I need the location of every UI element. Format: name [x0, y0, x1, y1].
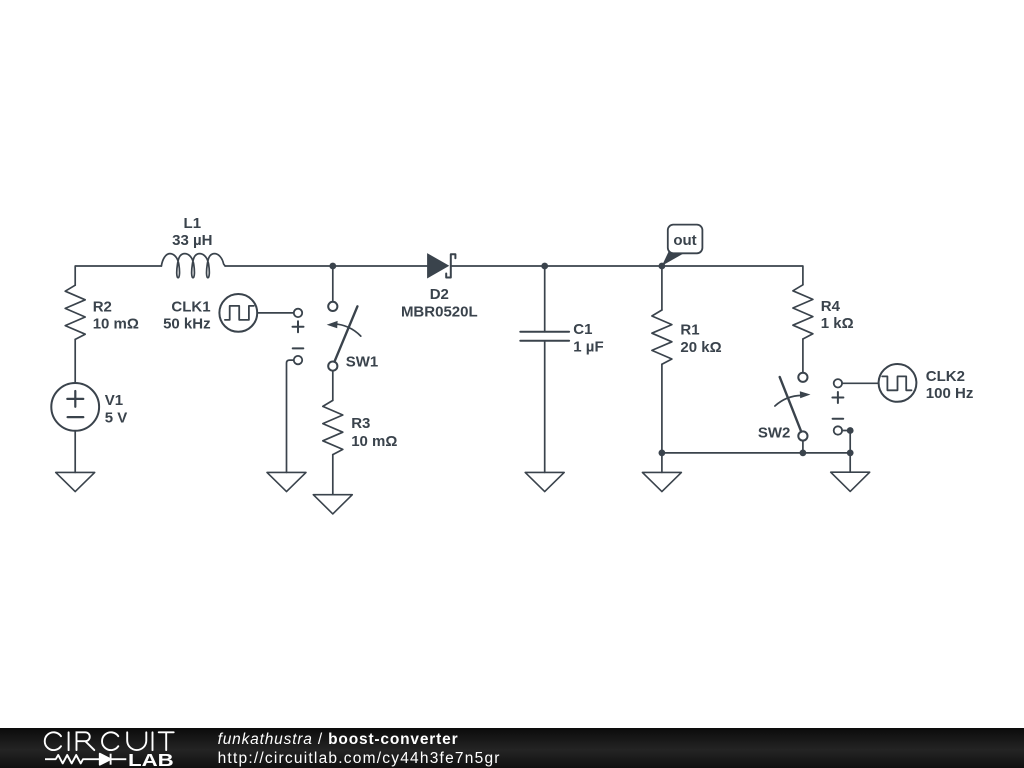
logo CIRCUIT wordmark	[45, 732, 174, 750]
node junction at out	[659, 263, 666, 270]
wire: CLK1 - terminal to ground	[287, 360, 294, 472]
footer bar	[0, 728, 1024, 768]
wire: SW2 to bottom node	[802, 441, 804, 453]
wire: diode cathode to right corner, down to R4	[452, 266, 803, 285]
capacitor C1	[520, 332, 569, 341]
svg-text:D2: D2	[430, 286, 449, 303]
inductor L1	[161, 254, 225, 278]
wire: left corner, top rail to inductor	[75, 266, 161, 285]
svg-text:10 mΩ: 10 mΩ	[93, 316, 139, 333]
svg-text:MBR0520L: MBR0520L	[401, 304, 478, 321]
clock source CLK1	[219, 294, 257, 332]
svg-text:20 kΩ: 20 kΩ	[680, 339, 721, 356]
svg-text:SW2: SW2	[758, 425, 791, 442]
svg-text:out: out	[673, 232, 696, 249]
ground (V1)	[56, 472, 95, 491]
svg-text:R2: R2	[93, 298, 112, 315]
ground (R3)	[313, 495, 352, 514]
node junction at SW2 bottom	[800, 450, 807, 457]
voltage source V1	[51, 383, 99, 431]
svg-text:1 kΩ: 1 kΩ	[821, 315, 854, 332]
wire: R1 bottom to ground	[661, 453, 663, 473]
node label out	[662, 225, 702, 266]
svg-text:5 V: 5 V	[105, 409, 128, 426]
resistor R3	[323, 400, 343, 454]
switch SW2	[775, 373, 811, 441]
wire: V1 to ground	[74, 431, 76, 473]
clock source CLK2	[879, 364, 917, 402]
svg-text:50 kHz: 50 kHz	[163, 316, 211, 333]
svg-text:SW1: SW1	[346, 354, 379, 371]
plus sign CLK1	[293, 321, 304, 332]
ground (C1)	[525, 472, 564, 491]
wire: CLK2 - terminal to node	[842, 430, 850, 432]
wire: node down to bottom rail	[849, 431, 851, 453]
svg-text:R4: R4	[821, 298, 841, 315]
resistor R2	[65, 285, 85, 339]
ground (CLK1)	[267, 472, 306, 491]
wire: C1 to ground	[544, 341, 546, 473]
node junction CLK2 neg	[847, 427, 854, 434]
wire: rail to C1	[544, 266, 546, 332]
svg-text:1 µF: 1 µF	[573, 338, 603, 355]
diode D2 (Schottky)	[427, 253, 455, 278]
node junction at C1	[541, 263, 548, 270]
terminal + of CLK1	[294, 309, 302, 317]
svg-text:CLK1: CLK1	[171, 298, 210, 315]
wire: R1 to bottom node	[661, 364, 663, 453]
wire: rail to R1	[661, 266, 663, 310]
node junction at R1 bottom	[659, 450, 666, 457]
svg-text:funkathustra / boost-converter: funkathustra / boost-converter	[218, 731, 459, 748]
svg-text:33 µH: 33 µH	[172, 232, 212, 249]
minus sign CLK1	[293, 347, 304, 349]
svg-text:CLK2: CLK2	[926, 368, 965, 385]
wire: CLK2 + terminal to clock	[842, 382, 879, 384]
wire: SW1 to R3	[332, 371, 334, 401]
svg-text:http://circuitlab.com/cy44h3fe: http://circuitlab.com/cy44h3fe7n5gr	[218, 750, 501, 767]
resistor R1	[652, 310, 672, 364]
wire: inductor to diode anode	[225, 265, 427, 267]
svg-text:C1: C1	[573, 321, 592, 338]
svg-text:V1: V1	[105, 392, 123, 409]
terminal - of CLK1	[294, 356, 302, 364]
switch SW1	[327, 302, 361, 371]
ground (R1)	[642, 472, 681, 491]
wire: bottom rail R1 to SW2 to CLK2 ground node	[662, 452, 850, 454]
svg-text:L1: L1	[184, 215, 202, 232]
svg-text:10 mΩ: 10 mΩ	[351, 433, 397, 450]
svg-text:100 Hz: 100 Hz	[926, 385, 974, 402]
svg-text:LAB: LAB	[128, 750, 174, 768]
plus sign CLK2	[832, 392, 843, 403]
terminal - of CLK2	[834, 426, 842, 434]
wire: R4 to SW2	[802, 339, 804, 373]
node junction at SW1 branch	[329, 263, 336, 270]
minus sign CLK2	[833, 418, 844, 420]
wire: R3 to ground	[332, 455, 334, 495]
wire: rail to SW1	[332, 266, 334, 302]
wire: bottom node to ground	[849, 453, 851, 472]
ground (CLK2)	[831, 472, 870, 491]
svg-text:R3: R3	[351, 415, 370, 432]
logo resistor-diode glyph	[45, 754, 126, 765]
wire: R2 to V1	[74, 339, 76, 383]
resistor R4	[793, 285, 813, 339]
svg-text:R1: R1	[680, 322, 699, 339]
wire: CLK1 to + terminal	[257, 312, 294, 314]
terminal + of CLK2	[834, 379, 842, 387]
node junction bottom right	[847, 450, 854, 457]
